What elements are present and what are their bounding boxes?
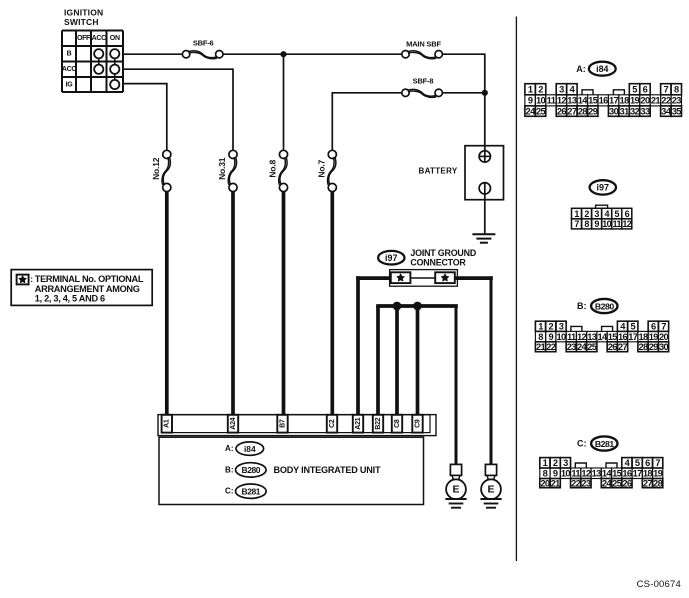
svg-text:CS-00674: CS-00674 — [637, 579, 681, 590]
svg-text:SBF-6: SBF-6 — [193, 39, 214, 48]
svg-text:17: 17 — [633, 469, 643, 479]
svg-text:A:: A: — [225, 444, 233, 453]
svg-text:7: 7 — [655, 458, 660, 468]
svg-text:i84: i84 — [244, 444, 256, 454]
svg-text:7: 7 — [574, 219, 579, 229]
svg-text:28: 28 — [578, 106, 588, 116]
svg-text:A1: A1 — [164, 419, 171, 428]
svg-text:13: 13 — [567, 96, 577, 106]
svg-text:11: 11 — [567, 332, 576, 342]
svg-text:28: 28 — [638, 342, 648, 352]
svg-text:10: 10 — [602, 219, 611, 229]
svg-text:16: 16 — [599, 96, 609, 106]
svg-text:B280: B280 — [242, 465, 261, 475]
svg-text:9: 9 — [594, 219, 599, 229]
svg-text:12: 12 — [622, 219, 631, 229]
svg-text:11: 11 — [547, 96, 556, 106]
svg-text:1: 1 — [543, 458, 548, 468]
svg-text:30: 30 — [659, 342, 669, 352]
svg-text:14: 14 — [597, 332, 608, 342]
svg-text:14: 14 — [578, 96, 589, 106]
svg-text:No.7: No.7 — [316, 160, 326, 178]
svg-text:7: 7 — [664, 85, 669, 95]
svg-text:33: 33 — [640, 106, 650, 116]
svg-text:5: 5 — [630, 322, 635, 332]
svg-text:1: 1 — [528, 85, 533, 95]
svg-text:1: 1 — [574, 209, 579, 219]
svg-text:8: 8 — [543, 469, 548, 479]
svg-text:29: 29 — [588, 106, 598, 116]
svg-text:i97: i97 — [597, 183, 610, 193]
svg-text:C9: C9 — [414, 419, 421, 428]
svg-text:SBF-8: SBF-8 — [413, 77, 434, 86]
svg-text:4: 4 — [620, 322, 626, 332]
svg-text:3: 3 — [559, 322, 564, 332]
svg-text:20: 20 — [659, 332, 669, 342]
svg-text:17: 17 — [628, 332, 638, 342]
svg-text:1, 2, 3, 4, 5 AND 6: 1, 2, 3, 4, 5 AND 6 — [35, 293, 105, 303]
svg-text:8: 8 — [538, 332, 543, 342]
svg-text:26: 26 — [608, 342, 618, 352]
svg-text:13: 13 — [587, 332, 597, 342]
svg-text:28: 28 — [653, 478, 663, 488]
svg-text:15: 15 — [608, 332, 618, 342]
svg-text:1: 1 — [538, 322, 543, 332]
svg-text:8: 8 — [674, 85, 679, 95]
svg-text:18: 18 — [643, 469, 653, 479]
svg-text:16: 16 — [618, 332, 628, 342]
svg-text:3: 3 — [594, 209, 599, 219]
svg-text:SWITCH: SWITCH — [64, 17, 99, 27]
svg-text:4: 4 — [604, 209, 609, 219]
svg-text:21: 21 — [651, 96, 661, 106]
svg-text:31: 31 — [620, 106, 630, 116]
svg-text:A24: A24 — [230, 417, 237, 429]
svg-text:15: 15 — [612, 469, 622, 479]
svg-text:i97: i97 — [385, 253, 398, 263]
svg-text:15: 15 — [588, 96, 598, 106]
svg-text:A:: A: — [576, 64, 586, 74]
svg-text:5: 5 — [615, 209, 620, 219]
svg-text:2: 2 — [584, 209, 589, 219]
svg-text:20: 20 — [640, 96, 650, 106]
svg-text:10: 10 — [561, 469, 571, 479]
svg-text:6: 6 — [643, 85, 648, 95]
svg-text:23: 23 — [581, 478, 591, 488]
svg-text:i84: i84 — [596, 64, 608, 74]
svg-text:24: 24 — [526, 106, 537, 116]
svg-text:ACC: ACC — [92, 35, 107, 42]
svg-text:20: 20 — [540, 478, 550, 488]
svg-text:C2: C2 — [329, 419, 336, 428]
svg-text:A21: A21 — [355, 417, 362, 429]
svg-text:32: 32 — [630, 106, 640, 116]
svg-text:10: 10 — [536, 96, 546, 106]
svg-text:12: 12 — [577, 332, 587, 342]
svg-text:29: 29 — [649, 342, 659, 352]
svg-text:19: 19 — [630, 96, 640, 106]
svg-text:C:: C: — [577, 439, 587, 449]
svg-text:18: 18 — [620, 96, 630, 106]
svg-text:BATTERY: BATTERY — [419, 167, 458, 176]
svg-text:22: 22 — [661, 96, 671, 106]
svg-text:3: 3 — [559, 85, 564, 95]
svg-text:23: 23 — [672, 96, 682, 106]
svg-text:2: 2 — [548, 322, 553, 332]
svg-text:22: 22 — [571, 478, 581, 488]
svg-text:B22: B22 — [375, 417, 382, 429]
svg-text:21: 21 — [536, 342, 546, 352]
svg-text:B7: B7 — [279, 419, 286, 428]
svg-text:5: 5 — [635, 458, 640, 468]
svg-text:2: 2 — [553, 458, 558, 468]
svg-text:ON: ON — [110, 35, 120, 42]
svg-text:2: 2 — [538, 85, 543, 95]
svg-text:23: 23 — [567, 342, 577, 352]
svg-text:6: 6 — [651, 322, 656, 332]
svg-text:IG: IG — [66, 81, 74, 88]
svg-text:25: 25 — [587, 342, 597, 352]
svg-text:12: 12 — [581, 469, 591, 479]
svg-text:No.31: No.31 — [217, 157, 227, 180]
svg-text:5: 5 — [632, 85, 637, 95]
svg-text:27: 27 — [618, 342, 628, 352]
svg-text:IGNITION: IGNITION — [64, 8, 103, 18]
svg-text:6: 6 — [625, 209, 630, 219]
svg-text:B280: B280 — [595, 301, 615, 311]
svg-text:C8: C8 — [394, 419, 401, 428]
svg-text:7: 7 — [661, 322, 666, 332]
svg-text:18: 18 — [638, 332, 648, 342]
svg-text:13: 13 — [592, 469, 602, 479]
svg-text:ARRANGEMENT AMONG: ARRANGEMENT AMONG — [35, 284, 140, 294]
svg-text:MAIN SBF: MAIN SBF — [406, 40, 441, 49]
svg-text:12: 12 — [557, 96, 567, 106]
svg-text:BODY INTEGRATED UNIT: BODY INTEGRATED UNIT — [274, 465, 381, 475]
svg-text:25: 25 — [612, 478, 622, 488]
svg-text:B: B — [67, 51, 72, 58]
svg-text:OFF: OFF — [77, 35, 91, 42]
svg-text:TERMINAL No. OPTIONAL: TERMINAL No. OPTIONAL — [35, 274, 144, 284]
svg-text:21: 21 — [551, 478, 561, 488]
svg-text:25: 25 — [536, 106, 546, 116]
svg-text:B281: B281 — [242, 487, 261, 497]
svg-text:19: 19 — [653, 469, 663, 479]
svg-text:C:: C: — [225, 487, 233, 496]
svg-text:6: 6 — [645, 458, 650, 468]
svg-text:16: 16 — [622, 469, 632, 479]
svg-text:E: E — [487, 484, 494, 496]
svg-text:B:: B: — [577, 301, 587, 311]
svg-text:35: 35 — [672, 106, 682, 116]
svg-text:27: 27 — [643, 478, 653, 488]
svg-text:11: 11 — [613, 219, 622, 229]
svg-text:34: 34 — [661, 106, 672, 116]
svg-text:14: 14 — [602, 469, 613, 479]
svg-text:9: 9 — [528, 96, 533, 106]
svg-text:9: 9 — [548, 332, 553, 342]
svg-text:4: 4 — [570, 85, 576, 95]
svg-text:22: 22 — [546, 342, 556, 352]
svg-text:9: 9 — [553, 469, 558, 479]
svg-text:B:: B: — [225, 465, 233, 474]
svg-text:8: 8 — [584, 219, 589, 229]
svg-text:E: E — [452, 484, 459, 496]
svg-text:19: 19 — [649, 332, 659, 342]
svg-text:No.8: No.8 — [268, 160, 278, 178]
svg-text:27: 27 — [567, 106, 577, 116]
svg-text:No.12: No.12 — [151, 157, 161, 180]
svg-text:CONNECTOR: CONNECTOR — [410, 257, 466, 267]
svg-text:30: 30 — [609, 106, 619, 116]
svg-text:ACC: ACC — [62, 66, 77, 73]
svg-text:10: 10 — [556, 332, 566, 342]
svg-text:26: 26 — [557, 106, 567, 116]
svg-text::: : — [30, 274, 33, 284]
svg-text:B281: B281 — [595, 439, 615, 449]
svg-text:4: 4 — [625, 458, 631, 468]
svg-text:11: 11 — [571, 469, 580, 479]
svg-text:26: 26 — [622, 478, 632, 488]
svg-text:3: 3 — [563, 458, 568, 468]
svg-text:17: 17 — [609, 96, 619, 106]
